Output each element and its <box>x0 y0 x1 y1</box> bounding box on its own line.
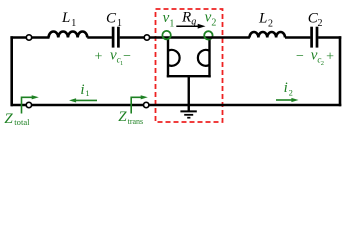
svg-text:L: L <box>61 10 70 26</box>
node: Ztotal terminal (open circle) <box>26 102 31 107</box>
svg-text:−: − <box>123 49 131 64</box>
svg-text:Z: Z <box>118 109 127 125</box>
node v2 marker (green circle) <box>204 31 212 39</box>
arrow i1 (green, pointing left) <box>75 99 97 101</box>
svg-text:2: 2 <box>318 18 323 29</box>
node: input terminal (open circle) <box>26 35 31 40</box>
svg-text:2: 2 <box>321 60 324 67</box>
wire: C1 to node v1 <box>120 36 168 39</box>
svg-text:+: + <box>326 49 334 64</box>
svg-text:1: 1 <box>71 18 76 29</box>
svg-text:Z: Z <box>4 111 13 127</box>
svg-text:−: − <box>296 49 304 64</box>
ground symbol <box>180 111 196 117</box>
wire: ground stem <box>188 76 190 111</box>
coupling hook arc (left, bulging right) <box>168 50 180 66</box>
svg-text:2: 2 <box>289 88 293 98</box>
svg-text:1: 1 <box>117 18 122 29</box>
wire: top-left segment from corner to inductor L1 <box>10 36 49 39</box>
capacitor C1 left plate <box>112 27 115 48</box>
capacitor C2 right plate <box>316 27 319 48</box>
svg-text:trans: trans <box>128 117 144 126</box>
svg-text:1: 1 <box>169 18 174 29</box>
capacitor C1 right plate <box>117 27 120 48</box>
red dashed box around Rg section <box>156 9 223 122</box>
arrow Ztrans probe (green L-shaped) <box>131 97 142 113</box>
wire: L1 to C1 <box>87 36 112 39</box>
svg-text:L: L <box>258 10 267 26</box>
inductor L1 <box>49 32 88 38</box>
node: Ztrans terminal (open circle) <box>144 102 149 107</box>
svg-text:R: R <box>181 10 191 26</box>
svg-text:i: i <box>284 80 288 96</box>
wire: node v1 to node v2 <box>168 36 210 39</box>
svg-text:i: i <box>80 82 84 98</box>
svg-text:1: 1 <box>85 88 89 98</box>
wire: L2 to C2 <box>285 36 310 39</box>
wire: left vertical branch <box>10 36 13 106</box>
node v1 marker (green circle) <box>162 31 170 39</box>
coupling hook arc (right, bulging left) <box>198 50 210 66</box>
arrow i2 (green, pointing right) <box>276 99 292 101</box>
arrow Ztotal probe (green L-shaped) <box>22 97 34 113</box>
inductor L2 <box>250 32 286 38</box>
svg-text:+: + <box>95 49 103 64</box>
svg-text:2: 2 <box>211 18 216 29</box>
svg-text:total: total <box>14 117 30 127</box>
wire: left leg of coupling structure <box>167 38 169 78</box>
node: terminal before gyrator box (open circle) <box>144 35 149 40</box>
wire: right vertical branch <box>339 36 342 106</box>
wire: right leg of coupling structure <box>208 38 210 78</box>
capacitor C2 left plate <box>310 27 313 48</box>
svg-text:C: C <box>106 11 117 27</box>
wire: bottom rail <box>11 104 342 107</box>
svg-text:2: 2 <box>268 18 273 29</box>
wire: bottom bar of coupling structure <box>167 75 211 77</box>
wire: C2 to right corner <box>318 36 341 39</box>
arrow Rg (black, pointing right) <box>176 25 199 27</box>
wire: v2 to L2 <box>209 36 250 39</box>
